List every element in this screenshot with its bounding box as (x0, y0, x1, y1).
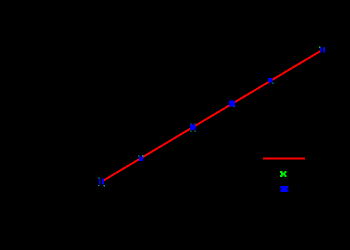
data point P3: green X tips (teal) (190, 124, 195, 132)
data point P2: blue square (139, 157, 143, 161)
data point P2: green X tips (teal) (138, 155, 143, 157)
legend: blue marker sample (280, 186, 289, 192)
data point P1: blue marker (two bars) (99, 178, 104, 184)
red fit line (102, 51, 320, 181)
data point P4: blue square (229, 101, 235, 107)
legend: green X sample (280, 171, 287, 177)
data point P6: green X tip (bright) (319, 47, 320, 48)
data point P1: green X tips (teal) (98, 177, 105, 186)
data point P6: blue marker (two bars) (320, 47, 325, 53)
data point P5: green X tips (teal) (272, 83, 273, 84)
data point P3: blue square (190, 125, 196, 131)
data point P5: blue square (268, 78, 273, 83)
legend: red line sample (263, 157, 305, 159)
data point P4: green X tips (teal) (229, 106, 235, 107)
